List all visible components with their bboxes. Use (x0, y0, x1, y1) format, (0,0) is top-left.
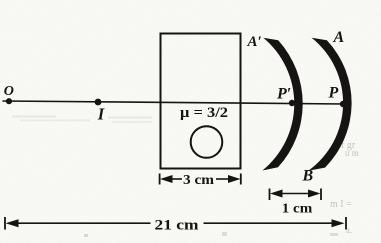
bleed-through specks bottom (84, 234, 88, 237)
svg-text:B: B (302, 168, 314, 185)
svg-text:m I =: m I = (330, 199, 352, 210)
svg-text:P′: P′ (276, 86, 291, 103)
svg-text:a.: a. (346, 225, 352, 235)
1 cm right arrowhead (308, 190, 321, 198)
bleed-through smudge line left of I (12, 116, 56, 118)
3 cm right arrowhead (228, 175, 241, 183)
svg-text:3 cm: 3 cm (183, 173, 214, 188)
svg-text:u m: u m (345, 148, 359, 158)
3 cm left shaft (171, 178, 182, 180)
pole P dot (340, 101, 346, 107)
3 cm left arrowhead (160, 175, 173, 183)
svg-text:μ = 3/2: μ = 3/2 (180, 105, 228, 121)
21 cm left shaft (17, 222, 151, 224)
3 cm dimension right tick (240, 174, 242, 185)
21 cm right shaft (204, 222, 334, 224)
21 cm dimension left tick (4, 217, 6, 230)
21 cm left arrowhead (6, 219, 19, 227)
svg-text:A′: A′ (247, 34, 262, 50)
3 cm right shaft (216, 178, 230, 180)
pole P' dot (289, 100, 295, 106)
image point I dot (95, 99, 102, 106)
air bubble circle inside slab (191, 126, 223, 158)
21 cm dimension right tick (345, 217, 347, 230)
svg-text:O: O (4, 84, 14, 99)
1 cm dimension right tick (320, 189, 322, 201)
1 cm dimension left tick (269, 189, 271, 201)
left curved surface A'P'B crescent (262, 38, 302, 171)
svg-text:21 cm: 21 cm (155, 218, 199, 234)
3 cm dimension left tick (159, 174, 161, 185)
svg-text:I: I (97, 105, 105, 124)
right curved surface APB crescent (308, 38, 351, 171)
1 cm left arrowhead (270, 190, 283, 198)
1 cm shaft (280, 193, 310, 195)
object point O dot (6, 98, 12, 104)
svg-text:1 cm: 1 cm (282, 202, 313, 217)
optical axis wire from O through I, slab, P' to P (3, 101, 346, 104)
svg-text:A: A (333, 29, 345, 46)
glass slab rectangle (161, 34, 241, 169)
svg-text:P: P (328, 85, 339, 102)
21 cm right arrowhead (332, 219, 345, 227)
